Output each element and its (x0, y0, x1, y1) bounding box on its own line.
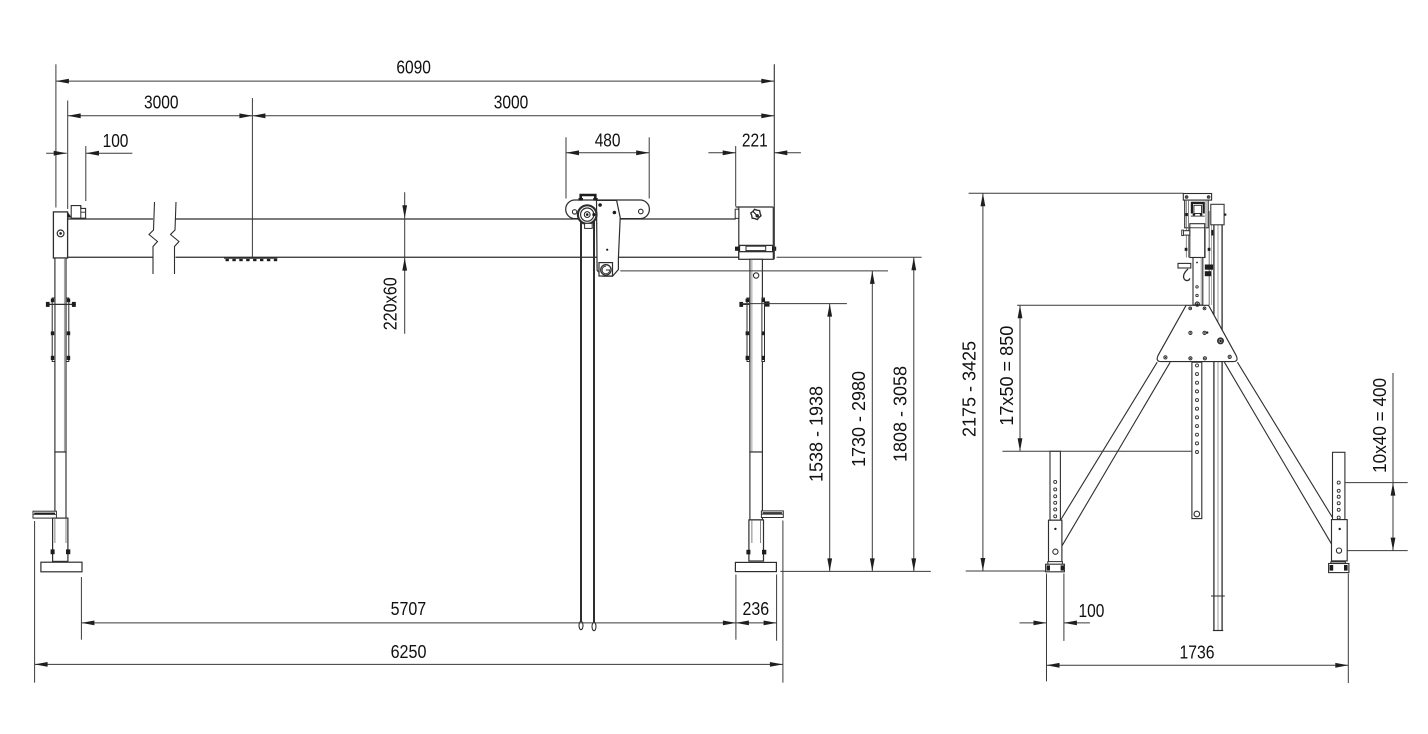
trolley left wheel (572, 210, 576, 214)
girder beam 220x60 (68, 219, 739, 257)
weld mark at beam left end (68, 212, 72, 217)
chain fall left (579, 215, 583, 630)
side left foot plate (1046, 562, 1065, 572)
front ground reference line (780, 570, 931, 572)
side left leg (1060, 362, 1170, 546)
svg-text:6090: 6090 (396, 57, 431, 78)
triangle bolts bottom row (1164, 355, 1231, 360)
rack strip under beam centre (224, 258, 277, 261)
side head mid column (1185, 224, 1214, 258)
svg-text:1730 - 2980: 1730 - 2980 (848, 371, 869, 467)
side right leg (1224, 362, 1334, 546)
dimension 1736 (1047, 574, 1349, 684)
dimension 1538 - 1938 (741, 304, 847, 572)
svg-text:1808 - 3058: 1808 - 3058 (890, 366, 911, 462)
side mast upper tube (1193, 258, 1203, 306)
dimension 17x50 = 850 (996, 305, 1192, 451)
side left foot sleeve (1049, 520, 1062, 562)
side head right box (1211, 204, 1226, 225)
hoist big pulley (578, 205, 597, 224)
right column tube (750, 259, 763, 452)
dimension 100 side (1020, 574, 1105, 682)
dimension 221 (708, 129, 801, 206)
dimension 6090 (56, 57, 774, 260)
side left foot tube (1050, 451, 1060, 520)
left column lower bracket (33, 511, 56, 518)
svg-text:17x50 = 850: 17x50 = 850 (996, 326, 1017, 426)
triangle bolts upper pair (1189, 307, 1206, 310)
dimension 220x60 beam height (380, 192, 408, 334)
right column end bracket (735, 207, 773, 259)
right column hole (753, 273, 758, 278)
dimension 1730 - 2980 (620, 271, 888, 572)
svg-text:100: 100 (1079, 600, 1105, 621)
left column top bracket (71, 206, 85, 219)
left column clamp (46, 298, 76, 362)
left column head bolt (57, 230, 64, 237)
right column clamp (739, 298, 769, 362)
svg-text:10x40 = 400: 10x40 = 400 (1369, 378, 1390, 473)
svg-text:6250: 6250 (391, 641, 427, 662)
dimension 236 (736, 575, 777, 641)
left foot plate (41, 562, 82, 572)
left column tube lower section (55, 452, 66, 544)
dimension 6250 (35, 521, 783, 683)
right bracket base plate (739, 252, 774, 260)
side head top plate (1183, 194, 1211, 201)
svg-text:220x60: 220x60 (380, 277, 401, 330)
dimension 3000 left (68, 91, 253, 257)
right column tube lower section (750, 452, 763, 520)
beam break symbol left (149, 202, 158, 274)
side head left pin bar (1178, 263, 1191, 268)
dimension 2175 - 3425 (959, 193, 1184, 571)
svg-text:100: 100 (103, 130, 129, 151)
side right foot plate (1329, 562, 1349, 573)
dimension 10x40 = 400 (1345, 373, 1408, 551)
svg-text:221: 221 (742, 129, 768, 150)
svg-text:5707: 5707 (391, 598, 427, 619)
side head body (1185, 200, 1209, 257)
side head left pin (1182, 230, 1190, 236)
svg-text:1736: 1736 (1180, 642, 1215, 663)
svg-text:3000: 3000 (144, 91, 179, 112)
side head pulley box (1192, 203, 1204, 216)
dimension 3000 right (252, 91, 774, 118)
svg-text:1538 - 1938: 1538 - 1938 (806, 386, 827, 482)
side chain rod (1211, 216, 1225, 631)
chain fall right (592, 215, 596, 631)
hoist arm bolts (592, 203, 616, 251)
side mast perforated strip (1192, 362, 1202, 518)
svg-text:2175 - 3425: 2175 - 3425 (959, 341, 980, 437)
side guide rod (1209, 211, 1211, 305)
pulley lower guide (585, 223, 593, 228)
dimension 480 (566, 129, 649, 198)
side head hook (1184, 269, 1190, 281)
svg-text:480: 480 (595, 129, 621, 150)
svg-text:236: 236 (743, 598, 770, 619)
trolley beam bar (566, 200, 650, 219)
left column head (53, 212, 67, 258)
right bracket bolt (751, 209, 761, 219)
dimension 5707 (81, 575, 736, 640)
side mast apex bolt (1195, 302, 1199, 306)
side right foot tube (1333, 452, 1345, 519)
hoist bottom pulley housing (599, 263, 613, 276)
trolley right wheel (639, 209, 644, 214)
right column bottom sleeve (746, 520, 766, 561)
trolley rail clamp (579, 195, 598, 201)
dimension 100 top left (46, 130, 132, 201)
beam break symbol right (171, 202, 180, 274)
right column lower bracket (761, 511, 783, 518)
side right foot sleeve (1332, 520, 1348, 561)
hoist arm plate (597, 200, 621, 276)
triangle bolts middle row (1189, 331, 1209, 334)
side head right clamp blocks (1205, 265, 1213, 277)
triangle big bolt (1218, 338, 1223, 343)
gusset triangle plate (1157, 305, 1237, 361)
right bracket clamp bar (735, 245, 776, 251)
right foot plate (735, 562, 776, 571)
left column tube (55, 258, 66, 452)
svg-text:3000: 3000 (494, 91, 529, 112)
left column bottom sleeve (51, 518, 71, 561)
dimension 1808 - 3058 (777, 257, 922, 571)
